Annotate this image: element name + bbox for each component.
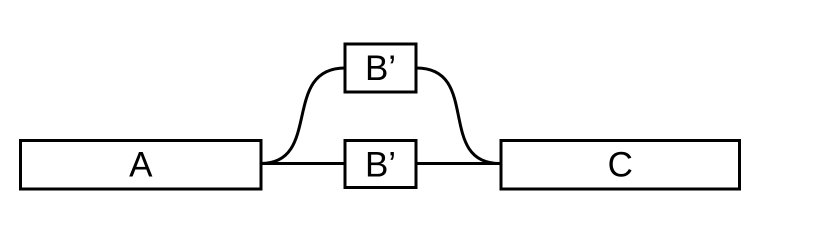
svg-text:B’: B’ — [365, 49, 396, 88]
svg-text:B’: B’ — [365, 145, 396, 184]
svg-text:A: A — [129, 146, 153, 185]
svg-text:C: C — [608, 146, 633, 185]
